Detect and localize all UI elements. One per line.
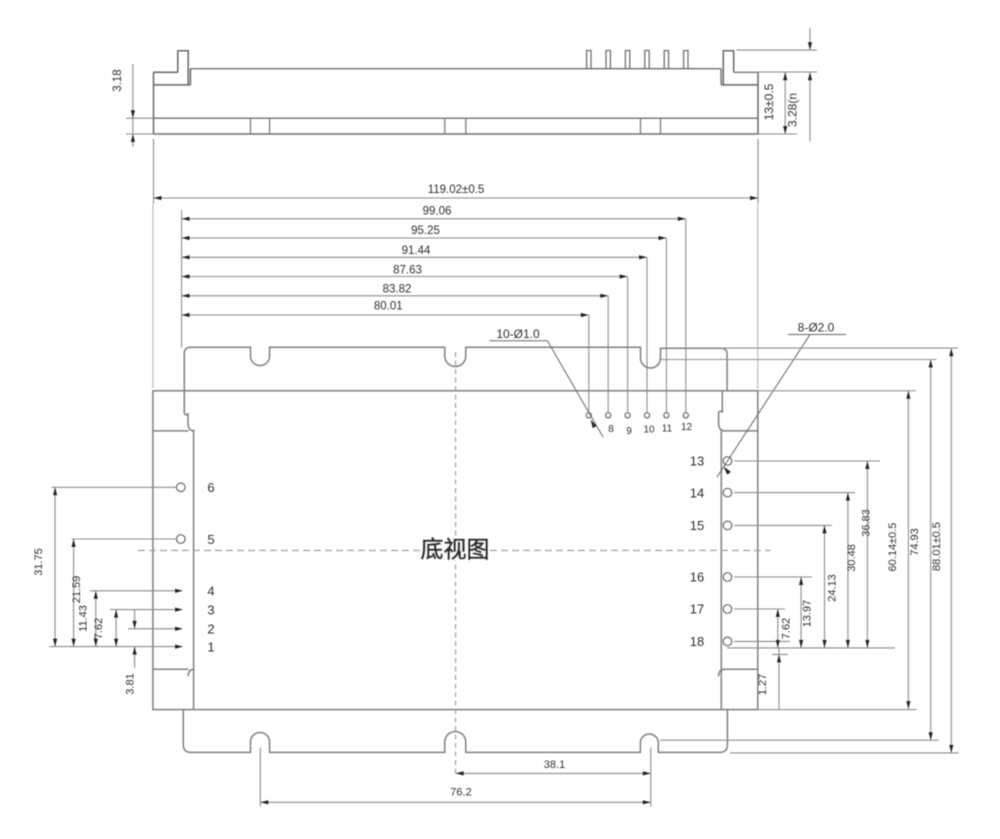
svg-text:10-Ø1.0: 10-Ø1.0 [496,327,540,341]
case left edge lower segment [182,710,184,745]
left mounting tab bottom edge [153,668,189,670]
left inner wall [193,430,195,710]
dimension 24.13 [822,525,838,648]
right extension line at baseplate bottom [758,709,917,711]
svg-text:99.06: 99.06 [423,206,452,218]
svg-text:21.59: 21.59 [71,576,83,604]
pin 9 [625,413,630,418]
vertical centerline [455,352,457,777]
side view case left edge [189,69,191,85]
dimension 3.81 [125,610,137,695]
right extension line at ledge [659,359,937,361]
svg-text:11: 11 [662,424,673,435]
fillet at right mounting tab bottom [719,669,726,676]
svg-text:60.14±0.5: 60.14±0.5 [887,523,899,572]
dimension 87.63 [182,265,628,279]
svg-text:36.83: 36.83 [861,509,873,537]
side view small pin 9 [625,51,629,69]
svg-text:87.63: 87.63 [393,265,422,277]
dimension 91.44 [182,245,647,260]
fillet into left mounting tab top [188,424,194,431]
side view baseplate slot mark pair 3 [641,118,661,134]
pin 13 [723,457,732,466]
baseplate outline [153,391,758,710]
side view baseplate top line [154,117,759,119]
case top edge with three slots [184,347,727,368]
dimension 88.01±0.5 [931,348,953,753]
svg-text:31.75: 31.75 [33,548,45,576]
faint extension, side view to plan view, right [757,204,759,389]
svg-text:8-Ø2.0: 8-Ø2.0 [798,321,835,335]
svg-text:16: 16 [690,570,704,585]
pin 6 [177,483,186,492]
pin 1 leader datum row [50,646,176,648]
dimension 13±0.5 (module height, right) [734,72,817,134]
pin 7 [586,413,591,418]
side view small pin 12 [684,51,688,69]
side view small pin 8 [606,51,610,69]
pin 2 leader row [128,628,176,630]
dimension 80.01 [182,301,589,318]
right mounting tab top edge [723,430,758,432]
case left edge upper segment with slot end [184,354,188,424]
svg-text:80.01: 80.01 [374,301,403,313]
dimension 11.43 [78,591,98,647]
svg-text:13.97: 13.97 [802,600,814,628]
extension line slot 3 bottom [650,748,652,807]
svg-text:1.27: 1.27 [757,674,769,695]
svg-text:15: 15 [690,518,704,533]
pin 4 leader row [90,590,176,592]
svg-text:119.02±0.5: 119.02±0.5 [428,184,485,196]
svg-text:7.62: 7.62 [93,618,105,639]
svg-text:88.01±0.5: 88.01±0.5 [931,522,943,571]
svg-text:4: 4 [207,584,214,599]
dimension 7.62 left [93,610,118,647]
fillet into right mounting tab top [719,424,726,431]
svg-text:9: 9 [626,426,632,437]
case bottom edge with three slots [183,732,727,753]
svg-text:30.48: 30.48 [846,544,858,572]
svg-text:11.43: 11.43 [78,605,90,632]
svg-text:17: 17 [690,602,704,617]
svg-text:2: 2 [207,622,214,637]
side view right end edge [757,72,759,134]
dimension 76.2 [260,787,651,805]
pin 16 row extension line [734,576,812,578]
svg-text:3: 3 [207,603,214,618]
side view small pin 10 [645,51,649,69]
side view right tab top edge [734,71,758,73]
svg-text:3.18: 3.18 [112,69,124,91]
extension lines from stack down to top pin row [685,219,687,413]
side view case right edge [720,69,722,85]
svg-text:91.44: 91.44 [402,245,431,257]
svg-text:38.1: 38.1 [544,759,565,771]
dimension 30.48 [846,493,858,648]
svg-text:8: 8 [608,424,614,435]
pin 11 [664,413,669,418]
pin 6 row extension line [51,486,176,488]
side view body top edge [190,68,721,70]
left mounting tab top edge [153,430,189,432]
svg-text:14: 14 [690,486,704,501]
svg-text:12: 12 [681,422,693,433]
dimension 95.25 [182,225,667,240]
fillet at left mounting tab bottom [188,669,194,676]
dimension 3.18 (baseplate thickness, left) [112,64,154,147]
dimension 119.02±0.5 (overall width) [154,139,759,204]
pin 14 row extension line [734,492,855,494]
dimension 1.27 [757,648,788,710]
pin 8 [606,413,611,418]
case right edge lower segment [726,710,728,745]
side view baseplate slot mark pair 2 [445,118,466,134]
pin 10 [644,413,649,418]
svg-text:13: 13 [690,454,704,469]
leader 10-Ø1.0 [489,327,603,437]
svg-text:10: 10 [643,425,655,436]
pin 14 [723,488,732,497]
right mounting tab bottom edge [723,668,758,670]
dimension 83.82 [182,283,609,298]
pin 16 [723,573,732,582]
dimension 74.93 [909,360,933,741]
pin 5 [177,535,186,544]
svg-text:3.28(n: 3.28(n [786,93,800,127]
dimension 38.1 [456,759,651,776]
side view baseplate bottom line [154,133,759,135]
pin 15 [723,521,732,530]
svg-text:7.62: 7.62 [781,618,793,639]
horizontal centerline [138,549,771,551]
pin 17 row extension line [734,608,785,610]
svg-text:95.25: 95.25 [411,225,440,237]
svg-text:24.13: 24.13 [827,574,839,602]
white mask under view label [421,538,489,561]
right extension line at case top [721,347,958,349]
svg-text:1: 1 [207,640,214,655]
side view right tab bottom edge [721,84,758,86]
extension line slot 1 bottom [259,748,261,807]
svg-text:13±0.5: 13±0.5 [762,83,776,120]
pin 15 row extension line [734,524,832,526]
pin 12 [683,413,688,418]
pin 18 row extension line [734,640,790,642]
datum row extension line (pin 1 level, right side) [727,647,895,649]
side view left standoff pin outline [178,51,188,85]
dimension 31.75 [33,487,57,646]
dimension 7.62 right [776,609,793,648]
pin 18 [723,637,732,646]
svg-text:83.82: 83.82 [383,283,412,295]
pin 3 leader row [110,609,176,611]
svg-text:74.93: 74.93 [909,528,921,556]
faint extension, side view to plan view, left [152,204,154,388]
pin 17 [723,605,732,614]
dimension 60.14±0.5 [887,391,911,709]
side view left tab bottom edge [154,84,191,86]
case right edge upper segment with slot end [719,354,728,423]
dimension 99.06 [182,206,686,221]
side view small pin 11 [664,51,668,69]
svg-text:76.2: 76.2 [450,787,471,799]
side view left end edge [153,72,155,134]
right extension line at baseplate top [758,390,916,392]
side view small pin 7 [587,51,591,69]
svg-text:6: 6 [207,480,214,495]
pin 13 row extension line [734,460,880,462]
right extension line at 74.93 bottom [660,739,939,741]
dimension 21.59 [71,539,83,647]
dimension 3.28 (pin height, far right) [737,28,818,142]
dimension 13.97 [799,577,814,648]
side view right standoff bushing outline [723,51,733,85]
shared left extension line of pin dimension stack [181,210,183,348]
side view baseplate slot mark pair 1 [251,118,270,134]
svg-text:18: 18 [690,634,704,649]
svg-text:底视图: 底视图 [421,536,490,562]
right inner wall [720,430,722,710]
side view left tab top edge [154,71,178,73]
pin 5 row extension line [72,538,177,540]
leader 8-Ø2.0 [717,321,846,478]
dimension 36.83 [861,461,873,648]
right extension line at case bottom [730,752,959,754]
svg-text:3.81: 3.81 [125,673,137,694]
svg-text:5: 5 [207,532,214,547]
